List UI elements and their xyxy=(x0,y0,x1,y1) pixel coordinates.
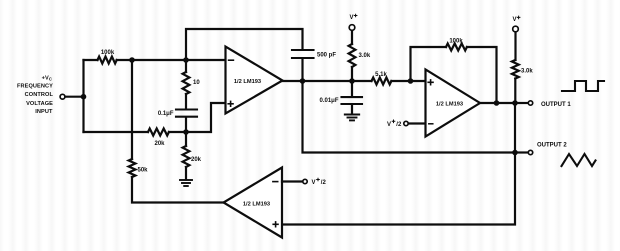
capacitor 500pF xyxy=(292,50,314,58)
resistor 100k xyxy=(98,57,117,64)
wire feedback (node F up over resistor 100k to node G) xyxy=(411,47,447,81)
wire feedback top (node B to capacitor 500pF) xyxy=(186,29,303,60)
resistor 100k feedback xyxy=(446,44,467,51)
wire node C to node E xyxy=(303,80,353,82)
resistor 10 xyxy=(183,72,190,94)
wire resistor 3.0k to node E xyxy=(351,67,353,81)
svg-text:OUTPUT 1: OUTPUT 1 xyxy=(541,102,571,108)
resistor 50k xyxy=(129,159,136,177)
junction node A xyxy=(129,57,135,63)
junction input node xyxy=(81,94,87,100)
wire node E to resistor 5.1k xyxy=(352,80,372,82)
svg-text:100k: 100k xyxy=(449,38,463,44)
svg-text:OUTPUT 2: OUTPUT 2 xyxy=(537,142,567,148)
wire terminal V+ to resistor 3.0k (second) xyxy=(514,33,516,61)
wire op-amp U2 output to node G xyxy=(480,102,497,104)
wire node G to node H xyxy=(497,102,516,104)
wire node I down to op-amp U3 non-inverting input xyxy=(282,153,515,225)
square wave symbol xyxy=(562,81,604,91)
resistor 3.0k (first) xyxy=(349,44,356,67)
op-amp U2 1/2 LM193 xyxy=(426,70,481,137)
wire resistor 100k to node A xyxy=(117,59,132,61)
ground (0.01uF) xyxy=(345,115,359,121)
op-amp U3 non-inverting pin mark xyxy=(273,222,278,227)
wire node B to op-amp U1 inverting input xyxy=(186,59,226,61)
terminal V+/2 (op-amp U3) xyxy=(303,179,307,183)
wire node D to resistor 20k vertical xyxy=(185,132,187,146)
svg-text:INPUT: INPUT xyxy=(35,109,53,115)
svg-text:5.1k: 5.1k xyxy=(375,72,387,78)
junction node E xyxy=(349,78,355,84)
op-amp U1 1/2 LM193 xyxy=(226,47,283,114)
terminal V+/2 (op-amp U2) xyxy=(404,121,408,125)
triangle wave symbol xyxy=(562,154,596,166)
wire node H to output 1 terminal xyxy=(515,102,527,104)
label V+/2 (op-amp U2) xyxy=(387,120,402,128)
capacitor 0.01uF xyxy=(342,97,363,104)
junction node H xyxy=(512,100,518,106)
junction node F xyxy=(408,78,414,84)
wire lower horizontal left segment xyxy=(84,131,149,133)
wire node I to output 2 terminal xyxy=(515,151,527,153)
junction node G xyxy=(494,100,500,106)
wire op-amp U1 output to node C xyxy=(283,80,303,82)
svg-text:500 pF: 500 pF xyxy=(317,52,336,58)
op-amp U2 inverting pin mark xyxy=(429,123,433,125)
op-amp U2 non-inverting pin mark xyxy=(428,80,433,85)
wire resistor 20k to ground xyxy=(185,167,187,180)
svg-text:20k: 20k xyxy=(154,141,165,147)
svg-text:V: V xyxy=(350,15,354,21)
svg-text:V: V xyxy=(513,17,517,23)
wire node A down to resistor 50k xyxy=(131,60,133,159)
terminal V+ (second) xyxy=(513,26,519,32)
resistor 3.0k (second) xyxy=(512,60,519,78)
wire capacitor 0.1uF to node D xyxy=(185,118,187,132)
svg-text:1/2 LM193: 1/2 LM193 xyxy=(243,202,270,208)
wire node D to op-amp U1 non-inverting input xyxy=(186,103,226,132)
wire node H down to node I xyxy=(514,103,516,153)
wire terminal V+ to resistor 3.0k xyxy=(351,31,353,44)
resistor 20k horizontal xyxy=(148,129,169,136)
svg-text:V: V xyxy=(312,180,316,186)
wire resistor 20k to node D xyxy=(169,131,186,133)
wire resistor 50k to op-amp U3 output xyxy=(132,177,224,203)
svg-text:FREQUENCY: FREQUENCY xyxy=(17,84,53,90)
wire node F to op-amp U2 non-inverting input xyxy=(411,80,426,82)
svg-text:1/2 LM193: 1/2 LM193 xyxy=(436,101,463,107)
wire node E to capacitor 0.01uF xyxy=(351,81,353,96)
label +Vc FREQUENCY CONTROL VOLTAGE INPUT xyxy=(17,75,54,115)
wire input to junction xyxy=(66,96,84,98)
wire capacitor 0.01uF to ground xyxy=(351,105,353,114)
wire to resistor 100k xyxy=(84,59,98,61)
op-amp U1 inverting pin mark xyxy=(229,59,234,61)
svg-text:VOLTAGE: VOLTAGE xyxy=(26,101,53,107)
svg-text:50k: 50k xyxy=(138,168,149,174)
op-amp U3 inverting pin mark xyxy=(273,181,278,183)
wire resistor 5.1k to node F xyxy=(391,80,410,82)
wire op-amp U3 inverting input to terminal V+/2 xyxy=(282,180,302,182)
wire capacitor 500pF to node C xyxy=(301,59,303,81)
svg-text:+VC: +VC xyxy=(42,75,52,81)
svg-text:10: 10 xyxy=(193,80,200,86)
junction node I (output 2 node) xyxy=(512,150,518,156)
wire node A to node B xyxy=(132,59,186,61)
wire node C down to output2 rail xyxy=(303,81,516,153)
terminal OUTPUT 2 xyxy=(528,150,532,154)
svg-text:/2: /2 xyxy=(321,180,327,186)
label V+/2 (op-amp U3) xyxy=(312,178,327,186)
junction node C xyxy=(300,78,306,84)
svg-text:CONTROL: CONTROL xyxy=(25,92,54,98)
input terminal xyxy=(60,94,65,99)
ground xyxy=(180,180,192,186)
svg-text:3.0k: 3.0k xyxy=(521,68,533,74)
svg-text:/2: /2 xyxy=(396,122,402,128)
label V+ (second) xyxy=(513,16,520,23)
op-amp U3 1/2 LM193 xyxy=(224,168,283,238)
svg-text:0.1μF: 0.1μF xyxy=(158,111,174,117)
wire resistor 10 to capacitor 0.1uF xyxy=(185,94,187,109)
svg-text:0.01μF: 0.01μF xyxy=(319,98,338,104)
wire input vertical xyxy=(82,60,84,132)
capacitor 0.1uF xyxy=(176,110,197,117)
terminal V+ (first) xyxy=(349,25,355,31)
wire resistor 3.0k to node H xyxy=(514,79,516,104)
svg-text:1/2 LM193: 1/2 LM193 xyxy=(234,79,261,85)
label V+ (first) xyxy=(350,14,357,21)
svg-text:20k: 20k xyxy=(191,157,202,163)
resistor 5.1k xyxy=(372,78,392,85)
op-amp U1 non-inverting pin mark xyxy=(228,101,233,106)
svg-text:100k: 100k xyxy=(101,50,115,56)
terminal OUTPUT 1 xyxy=(528,101,532,105)
junction node D xyxy=(183,129,189,135)
wire resistor 100k to node G xyxy=(467,47,497,103)
wire node B down to resistor 10 xyxy=(185,60,187,72)
junction node B (inverting input node) xyxy=(183,57,189,63)
resistor 20k vertical xyxy=(183,146,190,167)
svg-text:3.0k: 3.0k xyxy=(359,53,371,59)
svg-text:V: V xyxy=(387,122,391,128)
wire terminal V+/2 to op-amp U2 inverting input xyxy=(409,122,426,124)
